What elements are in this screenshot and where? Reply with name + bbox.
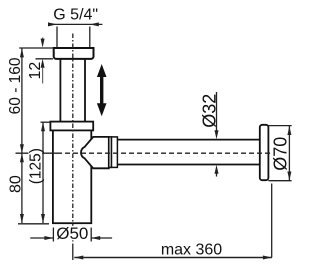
dim G 5/4: right extension line [89,27,91,48]
dim (125): top arrow [41,122,45,131]
svg-text:Ø32: Ø32 [200,94,220,128]
dim G 5/4: left arrow [48,22,57,26]
dim O50: right segment w/ arrow [91,237,112,239]
dim (125): extension line at nut top [41,121,51,123]
outlet nut [112,137,118,168]
basin flange (top rosette) [54,48,94,59]
vertical tailpipe wall left [59,59,61,122]
outlet tube wall bottom [117,164,259,166]
compression ring [109,137,112,168]
svg-text:60 - 160: 60 - 160 [7,57,24,114]
dim 60-160: bottom arrow [20,144,24,153]
svg-text:G 5/4": G 5/4" [53,7,98,24]
svg-text:80: 80 [8,175,25,193]
max 360 left extension (solid, below trap) [72,244,74,261]
dim O70: bottom arrow [287,172,291,181]
outlet elbow with bullet nose [81,137,109,168]
dim O32: upper segment w/ arrow down [216,92,218,131]
dim 12: upper arrow pointing down at flange top [42,37,44,39]
vertical centerline of trap [72,34,74,244]
svg-text:Ø70: Ø70 [271,137,291,171]
dim G 5/4: left extension line [56,27,58,48]
dim max 360: dimension line [74,257,272,259]
svg-text:(125): (125) [28,148,45,184]
dim O50: left extension line [52,228,54,242]
horizontal centerline of outlet pipe [57,152,272,154]
dim G 5/4: right arrow [90,22,99,26]
svg-text:12: 12 [27,62,44,80]
trap top nut [50,122,93,131]
white gap behind (125) label [29,148,43,185]
dim 80: top arrow [20,153,24,162]
dim (125): dimension line [42,122,44,223]
outlet tube wall top [117,139,259,141]
dim 60-160: dimension line [21,48,23,153]
dim (125): bottom arrow [41,214,45,223]
adjustment arrow (black double-head) [97,64,107,116]
dim O50: left segment w/ arrow [30,237,53,239]
dim 80: bottom arrow [20,214,24,223]
dim O70: top extension line [268,125,291,127]
extension line at outlet centerline (left, solid) [16,152,58,154]
white gap behind O50 label [56,226,89,241]
dim max 360: right extension line [271,184,273,258]
vertical tailpipe wall right [84,59,86,122]
dim O50: right extension line [90,228,92,242]
dim G 5/4: dimension line [48,23,102,25]
wall rosette [260,125,269,180]
trap body cup [53,130,91,223]
dim 60-160: top arrow [20,48,24,57]
dim max 360: right arrow [263,256,272,260]
dim O70: bottom extension line [268,180,291,182]
dim max 360: left arrow [74,256,83,260]
dim 12: extension line at flange bottom [36,58,54,60]
dim O70: top arrow [287,126,291,135]
svg-text:max 360: max 360 [161,241,222,258]
dim O32: lower segment w/ arrow up [215,165,219,174]
dim 60-160: extension line at flange top [19,47,53,49]
extension line at body bottom [18,223,49,225]
dim 12: lower arrow pointing up at flange bottom [41,59,45,68]
svg-text:Ø50: Ø50 [56,224,88,243]
dim 80: dimension line [21,153,23,223]
dim O70: dimension line [288,126,290,181]
